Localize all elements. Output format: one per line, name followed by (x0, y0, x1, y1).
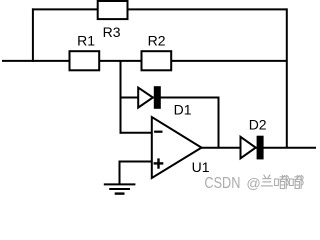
svg-text:R3: R3 (103, 24, 121, 40)
watermark CJK character lan (261, 175, 273, 186)
svg-text:U1: U1 (192, 159, 210, 175)
svg-text:R1: R1 (77, 33, 95, 49)
svg-text:D1: D1 (174, 102, 192, 118)
resistor R3 (98, 1, 128, 19)
watermark CJK character du (first) (275, 175, 289, 189)
svg-text:CSDN: CSDN (204, 175, 240, 192)
wire: output horizontal y=147.8 from op-amp through D2 to right edge (201, 147, 317, 149)
wire: op-amp non-inverting input horizontal y=161.5 (120, 161, 153, 163)
wire: left vertical riser x=33 joining input rail to top rail (32, 8, 34, 62)
watermark CJK character du (second) (289, 175, 303, 189)
svg-text:D2: D2 (249, 117, 267, 133)
ground (104, 184, 136, 193)
wire: D1 return vertical x=218.5 down to op-amp output (218, 97, 220, 148)
svg-text:@: @ (246, 176, 260, 192)
op-amp U1 (152, 117, 202, 178)
resistor R2 (142, 51, 172, 70)
wire: input horizontal rail y=61 from left edge to right vertical (2, 60, 287, 62)
wire: op-amp inverting input horizontal y=132.7 (120, 132, 153, 134)
wire: ground stem vertical x=119.5 (119, 161, 121, 185)
wire: D1 branch horizontal y=97.5 (121, 97, 219, 99)
diode D1 (138, 86, 161, 109)
diode D2 (241, 136, 264, 160)
wire: top feedback horizontal y=9.4 (32, 8, 287, 10)
svg-text:R2: R2 (148, 33, 166, 49)
wire: right vertical feedback x=287 from top rail down to output (286, 8, 288, 147)
resistor R1 (70, 51, 100, 70)
wire: inverting node vertical x=120.5 from R1/R2 junction down to op-amp minus input (120, 61, 122, 134)
